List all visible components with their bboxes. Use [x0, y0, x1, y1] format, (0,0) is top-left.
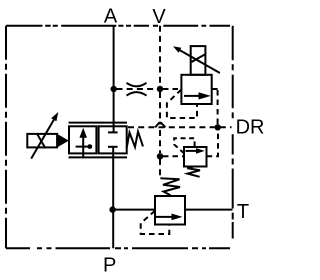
- wire: V port line (dashed pilot supply): [159, 26, 161, 86]
- left position: flow path arrow: [82, 136, 84, 157]
- node: junction on P line: [109, 206, 115, 212]
- left position: branch bar with node: [76, 146, 88, 148]
- main proportional pressure reducing valve body: [69, 126, 96, 153]
- svg-text:A: A: [104, 6, 118, 28]
- pressure relief valve body (bottom, to T): [155, 196, 185, 225]
- wire: drain line to DR port (dashed): [128, 126, 232, 128]
- node: drain junction: [215, 124, 221, 130]
- spring of relief valve: [160, 178, 180, 195]
- svg-text:DR: DR: [236, 117, 265, 139]
- wire: main line to relief valve input (solid): [112, 209, 155, 211]
- orifice (restriction): [127, 83, 147, 87]
- right position: blocked port bottom: [112, 147, 114, 154]
- wire: relief valve output to T port (solid): [185, 209, 233, 211]
- wire: pilot line from A junction through orifice to V line (dashed): [117, 88, 158, 90]
- proportional solenoid (main valve): [27, 134, 57, 148]
- wire: relief drain down to DR line (dashed): [217, 90, 219, 125]
- node: junction on V line: [157, 86, 163, 92]
- pilot reducing valve body (middle): [184, 147, 207, 167]
- wire: V line continues down (dashed): [159, 92, 161, 125]
- wire: reducing valve outlet to drain junction (dashed): [207, 130, 218, 156]
- right position: blocked port top: [113, 126, 115, 132]
- wire: pilot line down to lower valves (dashed): [159, 130, 161, 153]
- pilot sensing loop of relief valve (dashed): [167, 90, 197, 119]
- node: junction on A line: [111, 86, 117, 92]
- junction fillets at drain tee: [155, 122, 160, 127]
- wire: P port line (solid): [112, 153, 114, 248]
- svg-text:T: T: [237, 201, 249, 223]
- flow arrow inside relief valve: [156, 216, 173, 218]
- pilot sensing loop of relief valve (dashed): [141, 211, 170, 234]
- proportional action lines: [69, 122, 128, 124]
- svg-text:V: V: [152, 6, 166, 28]
- node: pilot branch junction: [157, 153, 163, 159]
- wire: relief valve outlet stub (solid): [212, 88, 218, 90]
- adjustment arrow (main valve solenoid): [31, 119, 54, 159]
- wire: A port line (solid): [113, 26, 115, 127]
- proportional pilot relief valve body (top right): [181, 75, 211, 104]
- adjustment arrow (pilot relief): [179, 50, 220, 73]
- wire: branch to pilot reducing valve (dashed): [163, 155, 184, 157]
- flow arrow inside pilot relief valve: [184, 95, 200, 97]
- valve housing boundary (chain line frame): [6, 26, 233, 249]
- spring of main valve: [127, 132, 143, 148]
- svg-text:P: P: [103, 255, 116, 277]
- wire: pilot supply to relief valve input (dashed): [163, 88, 181, 90]
- proportional solenoid (pilot relief): [191, 46, 206, 75]
- flow arrow inside pilot reducing valve: [186, 150, 198, 152]
- pilot sensing line of reducing valve (dashed): [174, 138, 194, 153]
- spring of pilot reducing valve: [187, 167, 200, 177]
- wire: branch down to relief valve spring (dashed): [159, 159, 161, 178]
